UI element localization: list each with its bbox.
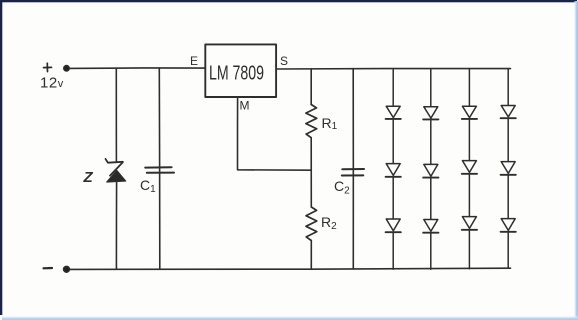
wire LED column 2 xyxy=(430,69,432,270)
LED D7 xyxy=(462,106,477,119)
LED D3 xyxy=(386,219,401,232)
LED D2 xyxy=(386,164,401,177)
LED D5 xyxy=(423,164,438,177)
svg-text:LM 7809: LM 7809 xyxy=(209,63,264,85)
LED D8 xyxy=(462,161,477,174)
LED D1 xyxy=(386,106,401,119)
wire top rail right segment xyxy=(277,67,511,70)
wire top rail left segment xyxy=(67,67,205,69)
LED D9 xyxy=(462,217,477,230)
wire C2 branch xyxy=(352,69,354,270)
node positive terminal xyxy=(64,66,69,71)
svg-text:S: S xyxy=(280,54,288,68)
resistor R1 xyxy=(306,105,317,138)
wire M pin xyxy=(238,97,311,170)
svg-text:12v: 12v xyxy=(40,75,64,92)
LED D12 xyxy=(501,219,516,232)
node negative terminal xyxy=(64,266,70,272)
zener diode Z xyxy=(106,159,126,182)
svg-text:Z: Z xyxy=(83,169,94,186)
wire bottom rail xyxy=(67,268,511,269)
wire R branch middle xyxy=(310,138,312,207)
wire zener branch lower xyxy=(115,182,117,270)
capacitor C1 xyxy=(145,167,174,173)
LED D10 xyxy=(501,106,516,119)
wire R branch bottom xyxy=(310,241,312,270)
op-amp regulator U1 LM7809 box xyxy=(205,44,276,97)
wire LED column 1 xyxy=(392,69,394,270)
label + (positive) xyxy=(44,63,52,71)
svg-text:M: M xyxy=(240,99,250,113)
LED D4 xyxy=(423,107,438,120)
LED D6 xyxy=(423,220,438,233)
capacitor C2 xyxy=(342,169,364,176)
wire LED column 3 xyxy=(468,69,470,269)
wire C1 branch xyxy=(158,68,161,269)
label - (negative) xyxy=(44,267,53,269)
svg-text:E: E xyxy=(190,54,198,68)
LED D11 xyxy=(501,162,516,175)
wire zener branch upper xyxy=(115,68,117,161)
wire R branch top xyxy=(310,69,312,105)
wire LED column 4 xyxy=(507,69,509,269)
resistor R2 xyxy=(306,207,317,241)
